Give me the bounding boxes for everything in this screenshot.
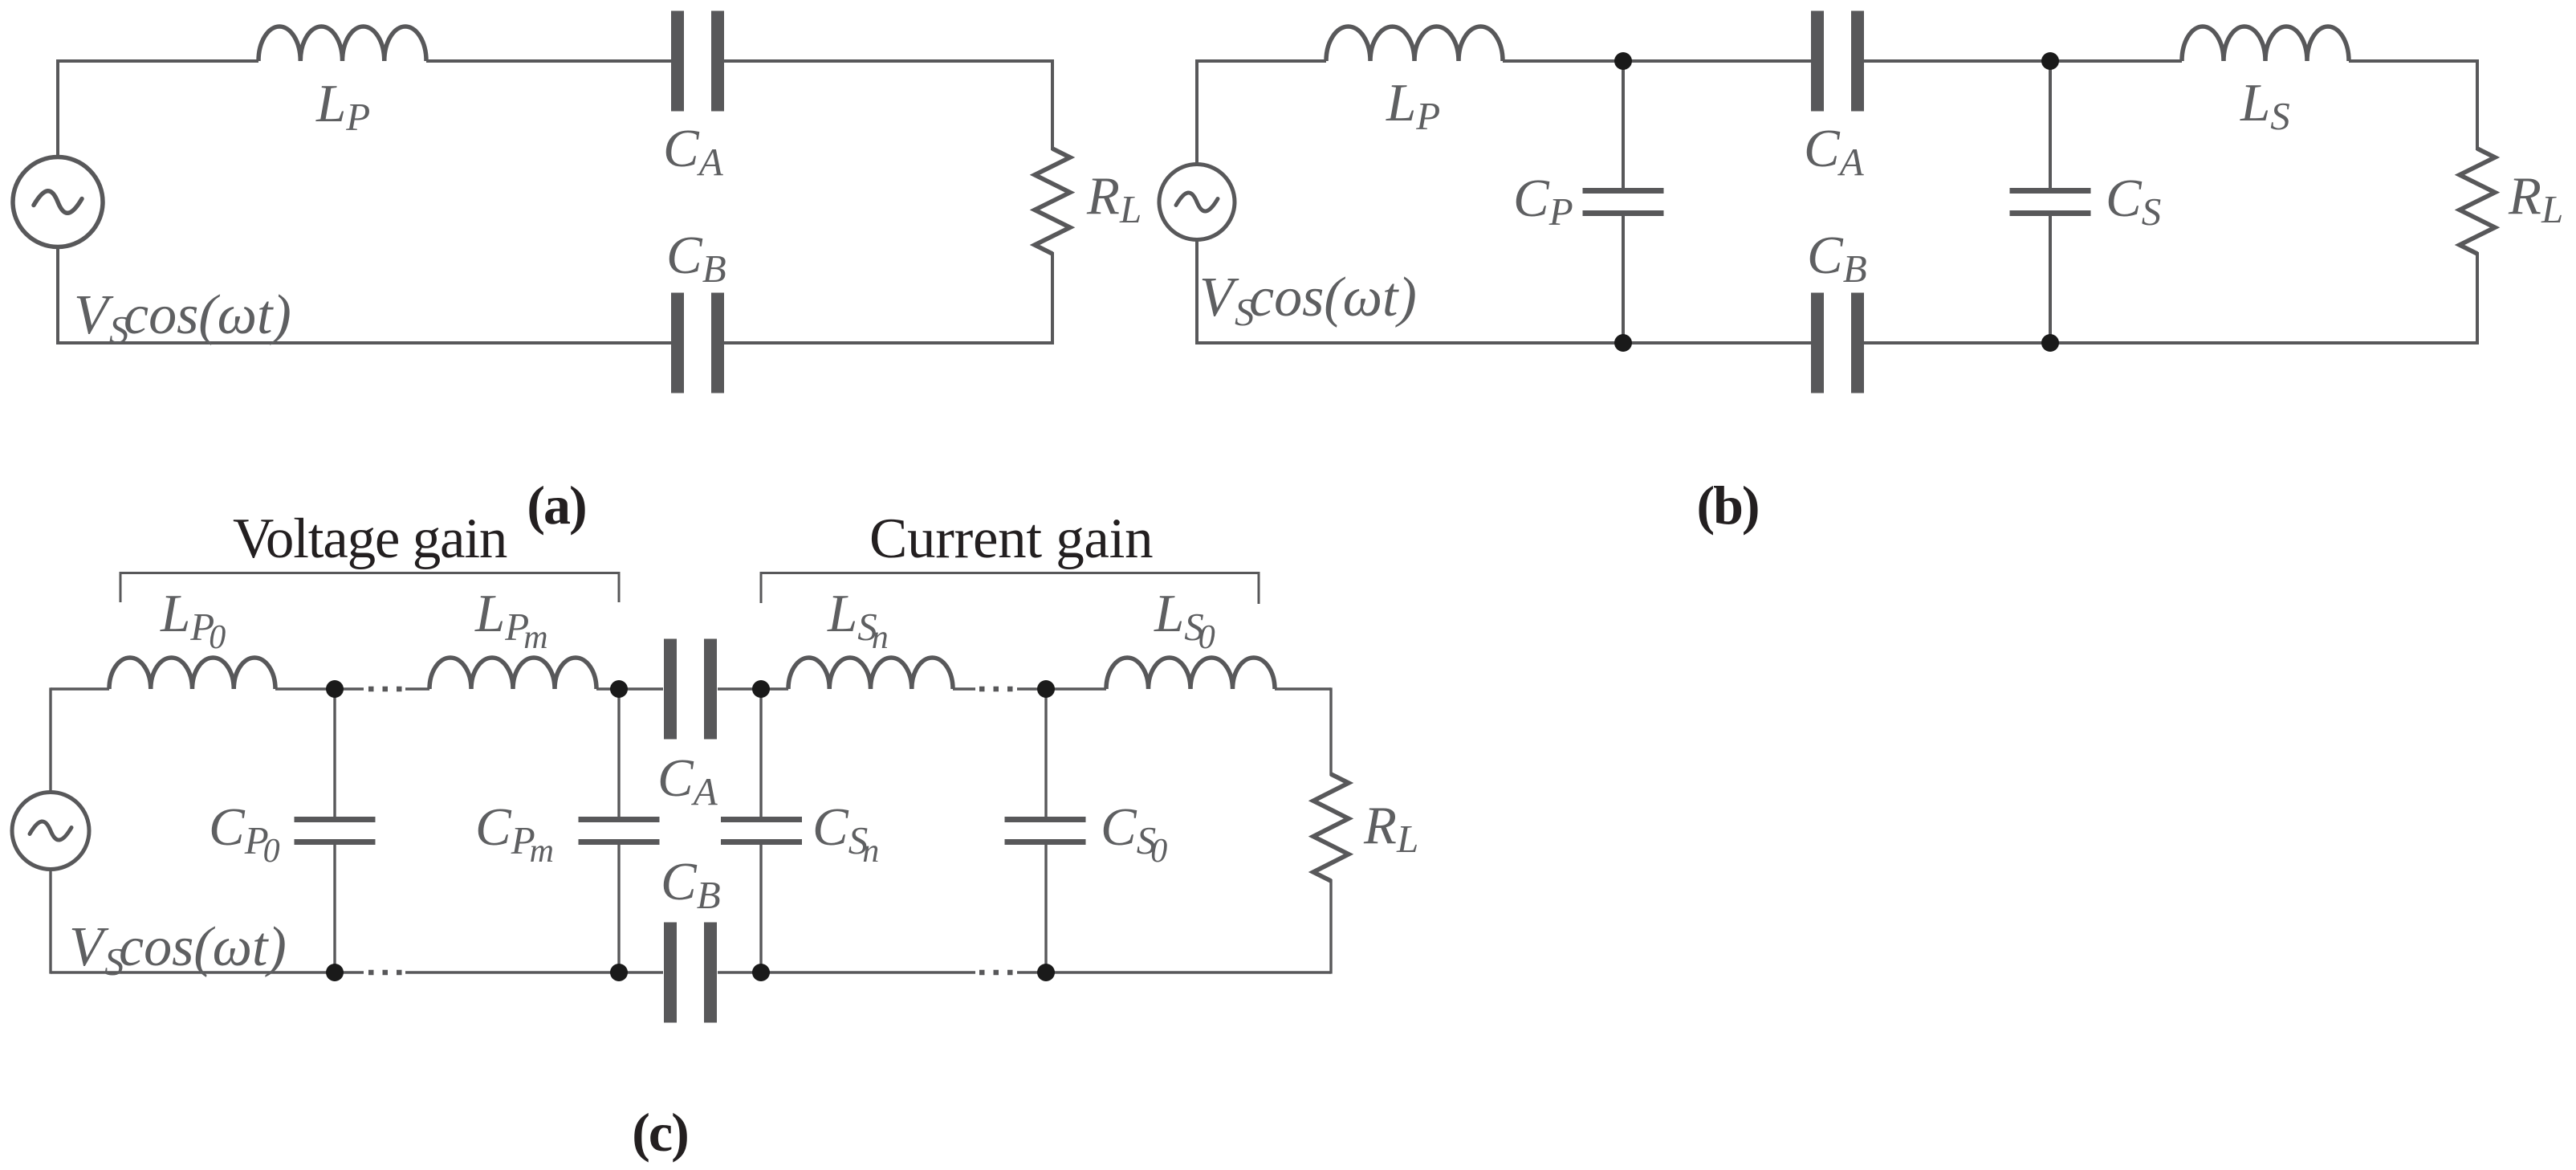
svg-text:RL: RL — [2508, 166, 2563, 231]
svg-text:(a): (a) — [527, 475, 585, 536]
svg-text:CP0: CP0 — [209, 797, 280, 870]
svg-text:CS0: CS0 — [1101, 797, 1167, 870]
svg-text:LPm: LPm — [474, 584, 548, 656]
svg-text:CS: CS — [2106, 169, 2161, 234]
svg-text:LP0: LP0 — [160, 584, 226, 656]
svg-text:CA: CA — [663, 119, 724, 184]
svg-text:V: V — [74, 284, 114, 346]
svg-text:CSn: CSn — [812, 797, 879, 870]
svg-text:V: V — [1199, 267, 1239, 328]
svg-text:CPm: CPm — [475, 797, 554, 870]
svg-text:CB: CB — [666, 226, 726, 291]
svg-text:cos(ωt): cos(ωt) — [124, 284, 291, 346]
svg-text:LS: LS — [2240, 73, 2290, 138]
svg-text:cos(ωt): cos(ωt) — [1249, 267, 1417, 328]
svg-text:CA: CA — [657, 748, 718, 813]
svg-text:cos(ωt): cos(ωt) — [119, 916, 287, 978]
svg-text:V: V — [69, 916, 109, 978]
svg-text:LSn: LSn — [827, 584, 889, 656]
svg-text:LP: LP — [315, 74, 370, 139]
svg-text:RL: RL — [1086, 166, 1141, 231]
svg-text:CP: CP — [1513, 169, 1573, 234]
svg-text:LP: LP — [1386, 73, 1440, 138]
svg-text:CB: CB — [661, 852, 721, 917]
svg-text:Voltage gain: Voltage gain — [233, 508, 507, 570]
svg-text:(c): (c) — [632, 1102, 687, 1163]
svg-text:CB: CB — [1807, 226, 1867, 291]
svg-text:RL: RL — [1363, 796, 1418, 861]
svg-text:(b): (b) — [1696, 475, 1758, 536]
svg-text:CA: CA — [1804, 119, 1865, 184]
svg-text:LS0: LS0 — [1154, 584, 1215, 656]
svg-text:Current gain: Current gain — [869, 508, 1153, 570]
